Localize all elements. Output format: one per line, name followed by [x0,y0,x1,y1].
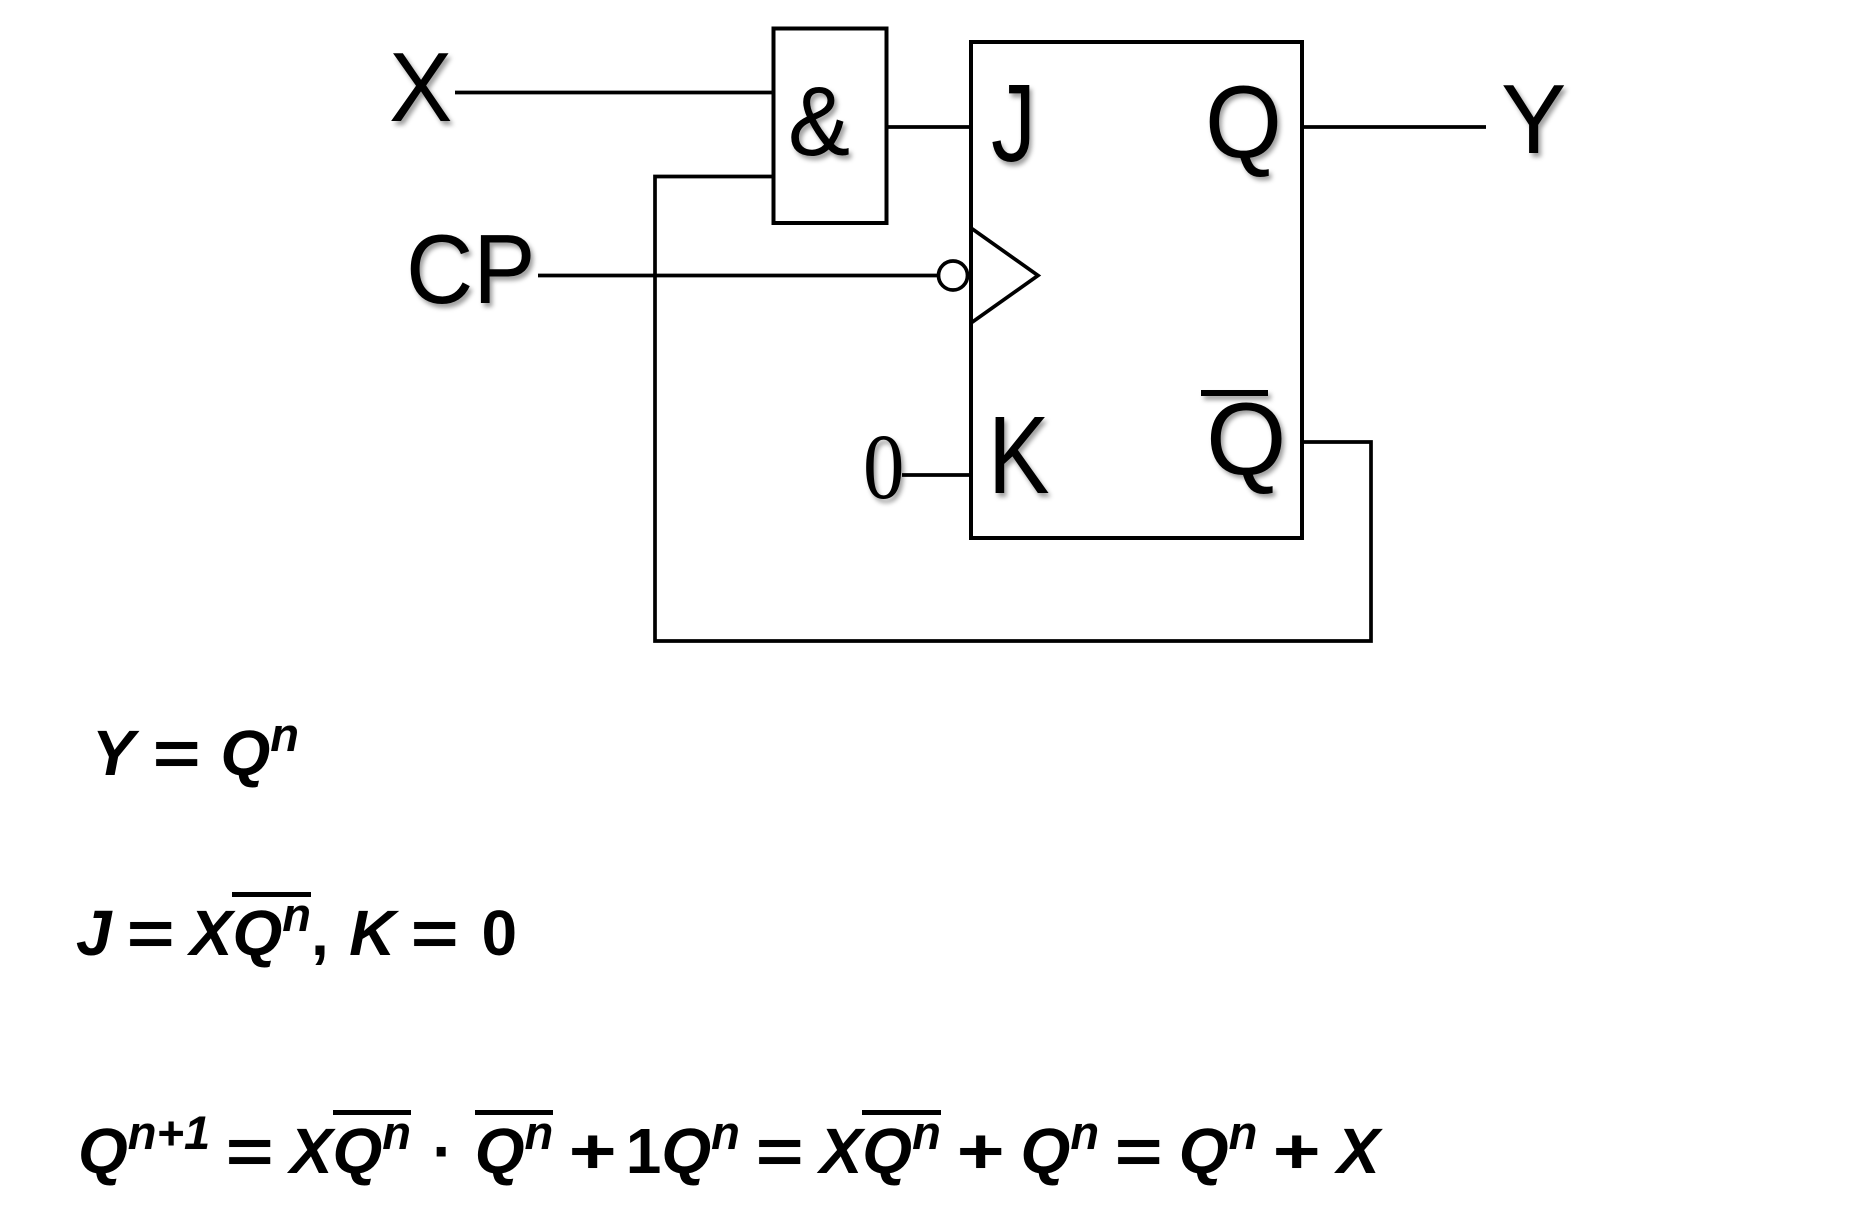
equation J = XQ^n, K = 0 [76,901,517,965]
constant 0 on K input [863,421,904,514]
equation Q^n+1 expansion [78,1119,1380,1183]
pin label Qbar [1206,388,1286,491]
pin label J [991,69,1036,179]
clock edge triangle [971,228,1038,323]
wire 0 to K [902,473,971,477]
label CP [406,220,535,318]
clock inversion bubble [939,261,968,290]
pin label Q [1205,71,1282,174]
wire Q output to Y [1302,125,1486,129]
AND gate box [774,29,887,224]
label Y [1501,70,1566,168]
JK flip-flop box [971,42,1302,538]
wire X to AND input 1 [455,91,773,95]
Qbar overline [1201,390,1268,396]
equation Y = Q^n [92,721,299,785]
label X [389,38,452,136]
AND symbol & [788,72,850,170]
pin label K [988,401,1050,511]
wire CP to clock [538,274,937,278]
wire AND output to J [886,125,971,129]
wire Qbar feedback net to AND input 2 [655,177,1371,642]
